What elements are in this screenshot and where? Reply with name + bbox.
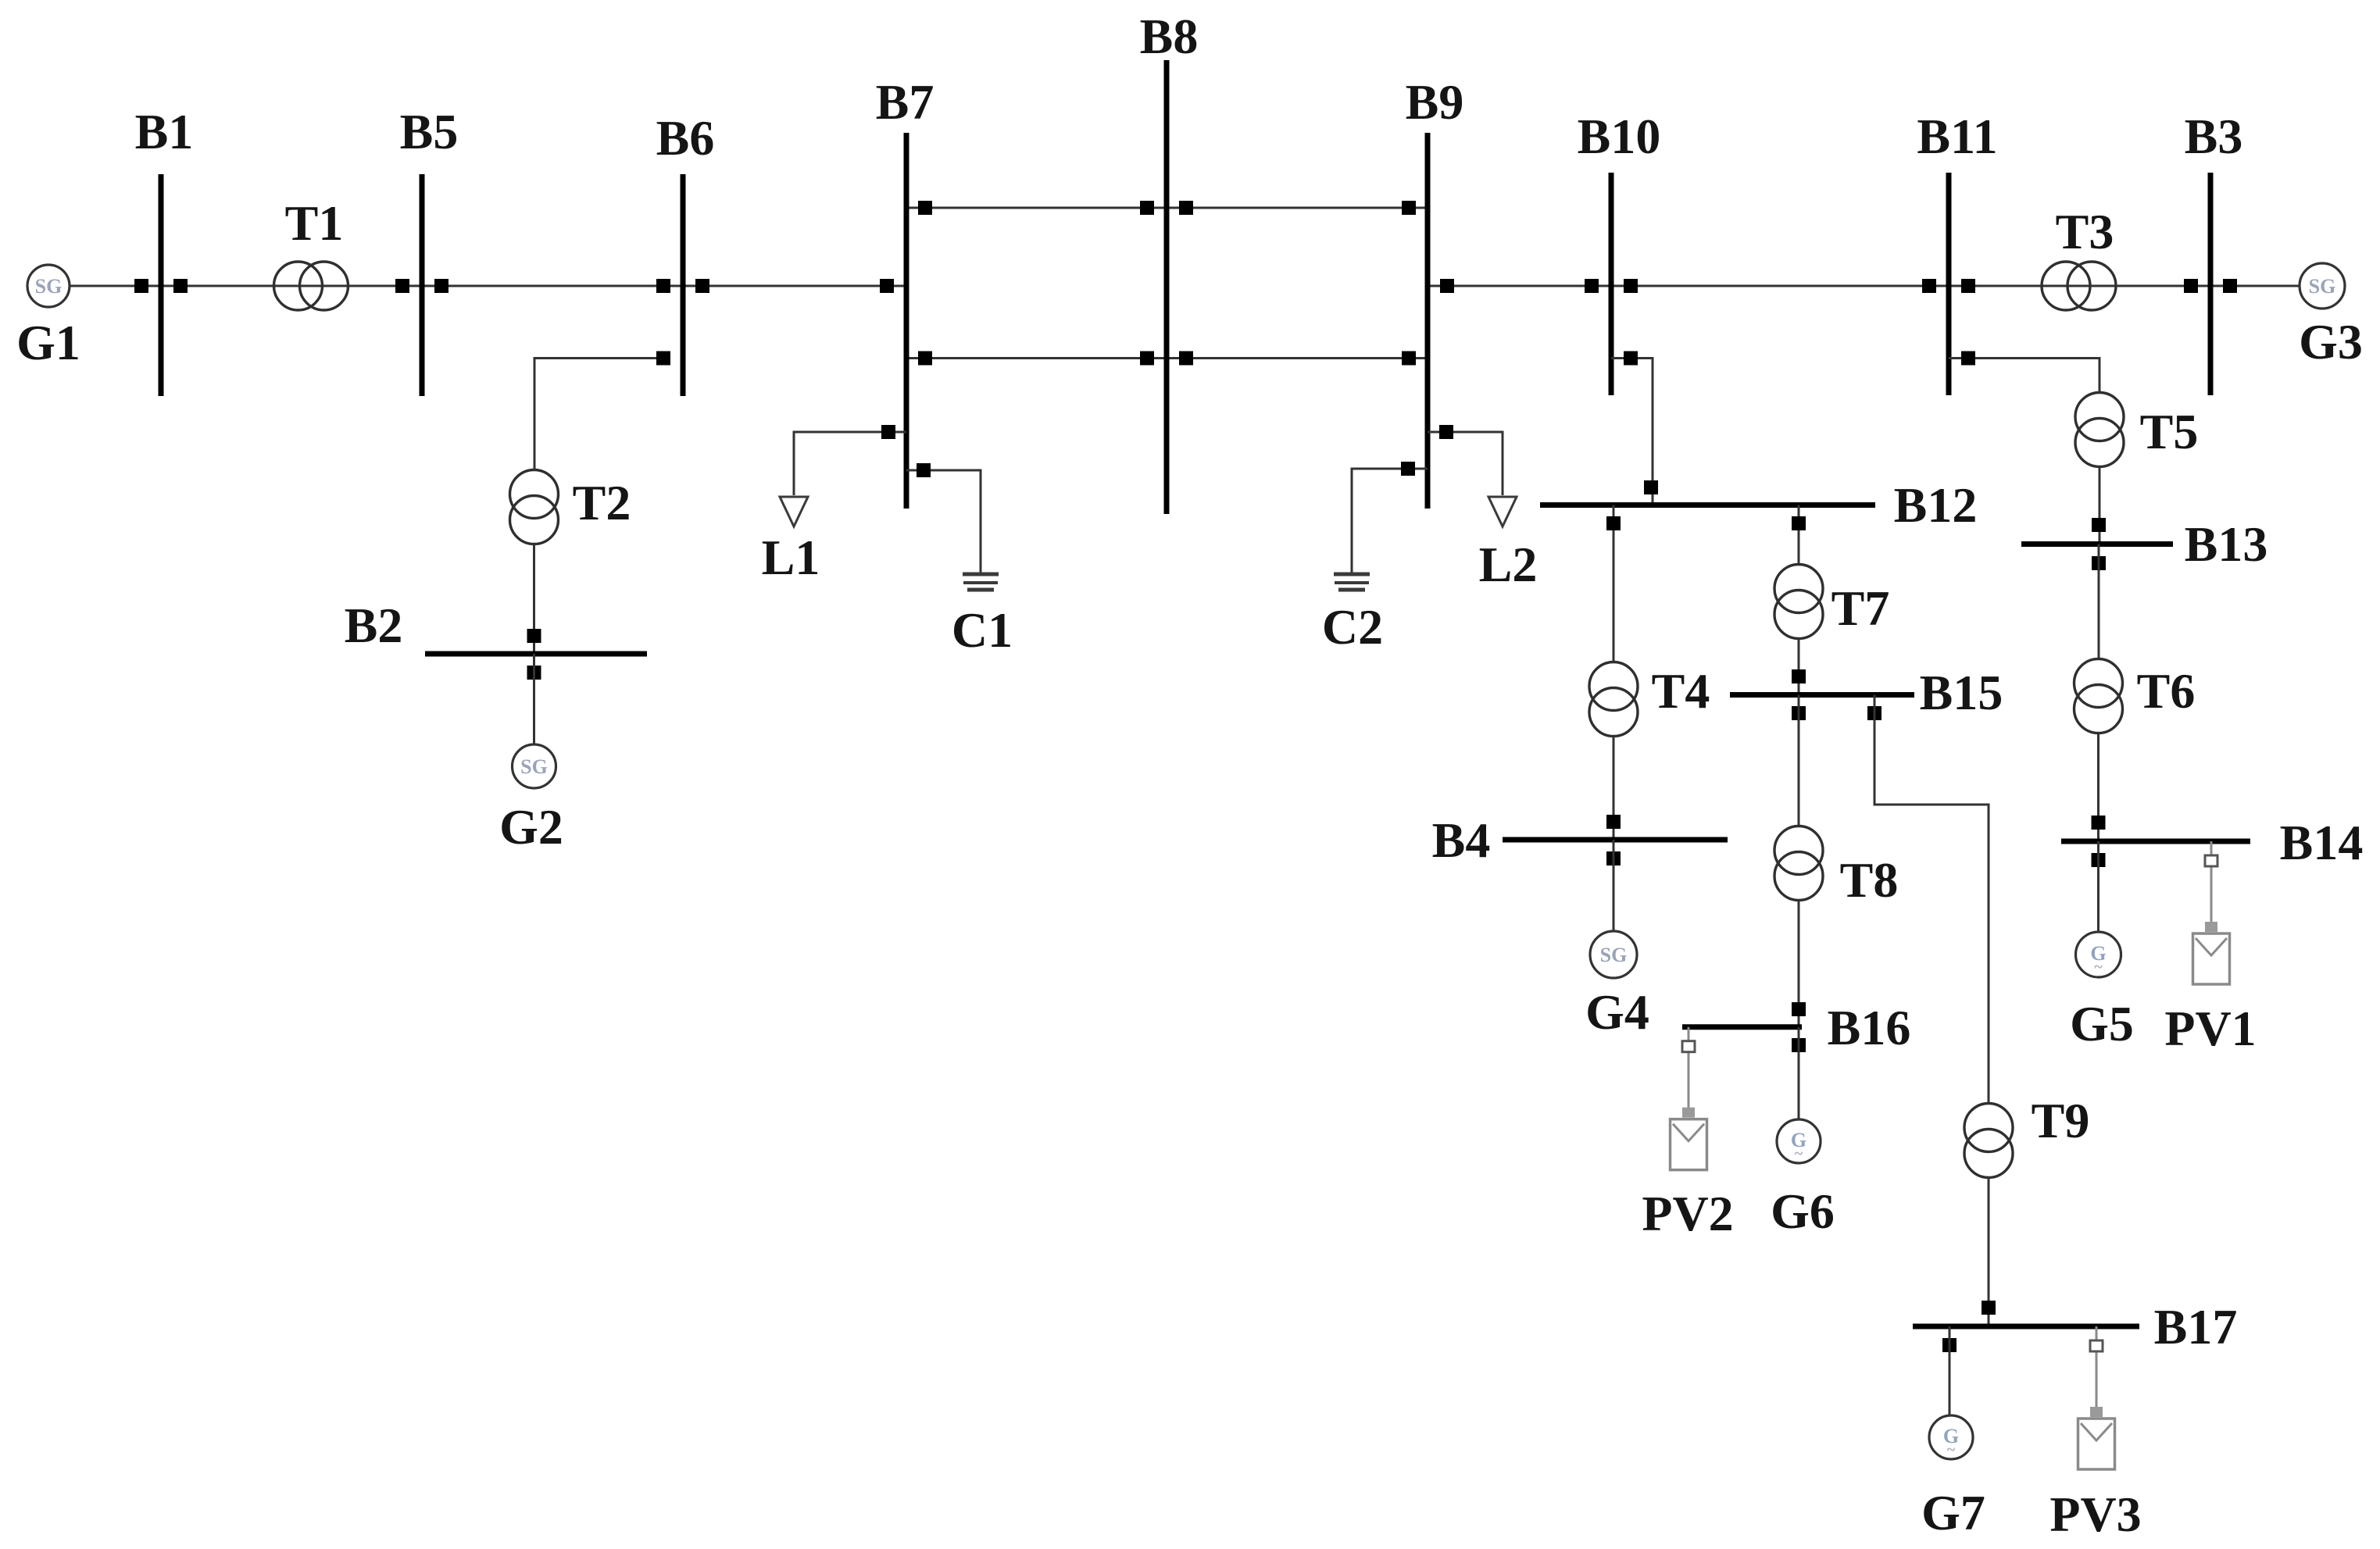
label B1: [135, 104, 194, 159]
svg-text:C1: C1: [952, 602, 1013, 658]
label T8: [1840, 852, 1899, 908]
bus B12: [1540, 502, 1875, 508]
svg-text:B5: B5: [400, 104, 459, 159]
label B9: [1406, 74, 1464, 130]
svg-text:SG: SG: [1600, 944, 1628, 966]
label B3: [2185, 109, 2243, 164]
bus B10: [1609, 173, 1614, 395]
wire B6 to T2: [534, 359, 663, 470]
junction B7-C1: [917, 463, 931, 477]
svg-text:G2: G2: [499, 799, 563, 855]
junction B10-B12 branch: [1624, 352, 1638, 366]
junction B10 right: [1624, 279, 1638, 293]
wire B17 to G7: [1949, 1326, 1951, 1415]
label B5: [400, 104, 459, 159]
wire B10 to B12: [1611, 359, 1653, 505]
svg-text:B16: B16: [1828, 1000, 1911, 1055]
junction B12 top: [1644, 480, 1658, 494]
junction B8 line2 right: [1179, 352, 1193, 366]
label B11: [1917, 109, 1997, 164]
load L1 arrow: [780, 497, 808, 526]
label T2: [573, 475, 631, 530]
bus B9: [1425, 133, 1431, 509]
svg-text:B17: B17: [2154, 1299, 2238, 1354]
svg-text:T8: T8: [1840, 852, 1899, 908]
label T4: [1652, 663, 1710, 719]
svg-text:B8: B8: [1140, 9, 1199, 64]
wire B13 to T6: [2098, 544, 2100, 659]
svg-text:PV1: PV1: [2164, 1001, 2256, 1056]
junction B7-L1: [881, 425, 895, 439]
wire B12 to T4: [1613, 505, 1615, 662]
svg-text:SG: SG: [2309, 275, 2336, 298]
bus B14: [2061, 839, 2250, 844]
bus B8: [1164, 60, 1170, 514]
label T9: [2032, 1093, 2090, 1148]
bus B7: [904, 133, 909, 509]
svg-text:SG: SG: [520, 755, 548, 778]
svg-text:B4: B4: [1432, 812, 1491, 868]
junction B6 left: [656, 279, 670, 293]
junction B10 left: [1585, 279, 1599, 293]
svg-text:T4: T4: [1652, 663, 1710, 719]
bus B13: [2021, 541, 2173, 547]
bus B16: [1682, 1024, 1802, 1030]
capacitor C1: [963, 574, 999, 590]
junction B13 top: [2092, 518, 2106, 532]
photovoltaic PV2: [1671, 1027, 1707, 1170]
svg-text:G6: G6: [1771, 1183, 1835, 1239]
svg-text:G4: G4: [1585, 984, 1649, 1040]
junction B9-C2: [1401, 462, 1415, 476]
wire T5 to B13: [2099, 467, 2101, 544]
label B16: [1828, 1000, 1911, 1055]
svg-text:PV2: PV2: [1642, 1186, 1733, 1241]
svg-text:T7: T7: [1831, 580, 1890, 636]
transformer T5: [2075, 393, 2124, 467]
bus B15: [1730, 692, 1914, 698]
junction B3 right: [2223, 279, 2237, 293]
label C2: [1322, 599, 1383, 655]
junction B7 line1: [918, 201, 932, 215]
label B17: [2154, 1299, 2238, 1354]
wire tie line 2 B7-B8-B9 (bottom): [906, 357, 1428, 359]
transformer T7: [1774, 565, 1823, 639]
label G6: [1771, 1183, 1835, 1239]
label T1: [285, 195, 344, 251]
bus B4: [1503, 837, 1728, 843]
svg-text:T6: T6: [2137, 663, 2196, 719]
svg-text:B7: B7: [876, 74, 934, 130]
junction B9 line2: [1402, 352, 1416, 366]
wire B9 to capacitor C2: [1352, 469, 1428, 573]
label C1: [952, 602, 1013, 658]
junction B3 left: [2184, 279, 2198, 293]
wire T2 to B2: [533, 544, 535, 654]
wire B7 to capacitor C1: [906, 470, 981, 573]
junction B14 bottom: [2092, 853, 2106, 867]
wire B7 to load L1: [794, 432, 906, 495]
bus B6: [681, 174, 686, 396]
svg-text:B12: B12: [1894, 477, 1978, 533]
svg-text:T3: T3: [2056, 204, 2114, 259]
junction B16 top: [1792, 1002, 1806, 1016]
junction B5 right: [434, 279, 448, 293]
svg-text:~: ~: [2094, 958, 2103, 976]
junction B11 left: [1922, 279, 1936, 293]
junction B12 bottom right: [1792, 516, 1806, 530]
wire B9 to load L2: [1428, 432, 1503, 495]
label T5: [2140, 404, 2199, 459]
junction B4 bottom: [1606, 851, 1621, 866]
junction B4 top: [1606, 815, 1621, 829]
transformer T4: [1589, 662, 1638, 737]
svg-text:B3: B3: [2185, 109, 2243, 164]
svg-text:G5: G5: [2070, 996, 2134, 1051]
bus B5: [420, 174, 425, 396]
junction B8 line1 right: [1179, 201, 1193, 215]
bus B17: [1913, 1324, 2139, 1329]
transformer T8: [1774, 826, 1823, 901]
bus B2: [425, 651, 647, 657]
junction B15 top: [1792, 669, 1806, 683]
label T7: [1831, 580, 1890, 636]
junction B2 top: [527, 629, 541, 643]
svg-text:T1: T1: [285, 195, 344, 251]
junction B15 bottom left: [1792, 706, 1806, 720]
svg-text:SG: SG: [35, 275, 63, 298]
svg-text:B14: B14: [2280, 815, 2364, 870]
label T3: [2056, 204, 2114, 259]
wire T6 to B14: [2097, 733, 2099, 841]
wire B15 to T9: [1874, 695, 1989, 1105]
svg-text:G7: G7: [1921, 1485, 1985, 1540]
junction B16 bottom: [1792, 1038, 1806, 1052]
svg-text:B15: B15: [1920, 665, 2003, 720]
label G4: [1585, 984, 1649, 1040]
svg-text:T2: T2: [573, 475, 631, 530]
generator G6: [1777, 1119, 1821, 1163]
junction B15 bottom right: [1867, 706, 1881, 720]
generator G7: [1929, 1415, 1973, 1459]
label B13: [2185, 516, 2268, 572]
svg-text:B2: B2: [345, 598, 403, 653]
junction B7 main-line: [880, 279, 894, 293]
label B4: [1432, 812, 1491, 868]
svg-text:B11: B11: [1917, 109, 1997, 164]
junction B17 bottom: [1942, 1338, 1957, 1352]
generator G4: [1590, 931, 1637, 978]
wire B4 to G4: [1613, 840, 1615, 931]
junction B13 bottom: [2092, 556, 2106, 570]
svg-text:C2: C2: [1322, 599, 1383, 655]
label PV3: [2049, 1487, 2141, 1542]
label B2: [345, 598, 403, 653]
junction B12 bottom left: [1606, 516, 1621, 530]
junction B8 line1 left: [1140, 201, 1154, 215]
wire T9 to B17: [1988, 1178, 1990, 1326]
junction B6-T2 branch: [656, 352, 670, 366]
label L2: [1479, 537, 1538, 592]
transformer T3: [2042, 262, 2116, 310]
svg-text:G3: G3: [2299, 314, 2363, 369]
junction B11-T5 branch: [1961, 352, 1975, 366]
label B8: [1140, 9, 1199, 64]
junction B11 right: [1961, 279, 1975, 293]
junction B2 bottom: [527, 666, 541, 680]
junction B9-L2: [1439, 425, 1453, 439]
wire tie line 1 B7-B8-B9 (top): [906, 207, 1428, 209]
junction B5 left: [395, 279, 409, 293]
junction B1 right: [173, 279, 188, 293]
wire B2 to G2: [533, 654, 535, 744]
transformer T2: [510, 470, 559, 544]
svg-text:~: ~: [1947, 1441, 1956, 1458]
photovoltaic PV1: [2193, 841, 2230, 984]
junction B14 top: [2092, 816, 2106, 830]
label B10: [1578, 109, 1661, 164]
label G1: [16, 315, 80, 370]
junction B9 main-line: [1440, 279, 1454, 293]
wire B15 to T8: [1798, 695, 1800, 827]
junction B9 line1: [1402, 201, 1416, 215]
transformer T6: [2074, 659, 2123, 733]
generator G2: [513, 744, 556, 788]
junction B7 line2: [918, 352, 932, 366]
bus B3: [2208, 173, 2214, 395]
label G7: [1921, 1485, 1985, 1540]
wire T7 to B15: [1798, 638, 1800, 695]
svg-text:B9: B9: [1406, 74, 1464, 130]
label G5: [2070, 996, 2134, 1051]
label B15: [1920, 665, 2003, 720]
svg-text:B13: B13: [2185, 516, 2268, 572]
svg-text:B6: B6: [656, 110, 715, 166]
wire main bus line right B9-B10-B11-T3-B3-G3: [1428, 285, 2301, 287]
svg-text:B10: B10: [1578, 109, 1661, 164]
svg-text:~: ~: [1795, 1145, 1803, 1162]
wire main bus line left G1-B1-T1-B5-B6-B7: [48, 285, 906, 287]
label T6: [2137, 663, 2196, 719]
generator G5: [2076, 932, 2121, 977]
svg-text:PV3: PV3: [2049, 1487, 2141, 1542]
wire B11 to T5: [1949, 359, 2099, 393]
label L1: [762, 530, 820, 585]
bus B11: [1946, 173, 1952, 395]
load L2 arrow: [1488, 497, 1517, 526]
wire T4 to B4: [1613, 737, 1615, 840]
junction B8 line2 left: [1140, 352, 1154, 366]
label B14: [2280, 815, 2364, 870]
svg-text:B1: B1: [135, 104, 194, 159]
junction B17 top: [1982, 1301, 1996, 1315]
wire B16 to G6: [1798, 1027, 1800, 1119]
svg-text:L2: L2: [1479, 537, 1538, 592]
svg-text:L1: L1: [762, 530, 820, 585]
svg-text:T5: T5: [2140, 404, 2199, 459]
bus B1: [159, 174, 164, 396]
label G2: [499, 799, 563, 855]
wire B12 to T7: [1798, 505, 1800, 566]
junction B1 left: [134, 279, 148, 293]
photovoltaic PV3: [2078, 1326, 2115, 1469]
wire B14 to G5: [2097, 841, 2099, 932]
label PV2: [1642, 1186, 1733, 1241]
capacitor C2: [1334, 574, 1370, 590]
generator G1: [27, 265, 70, 307]
transformer T1: [274, 262, 348, 310]
svg-text:G1: G1: [16, 315, 80, 370]
generator G3: [2300, 263, 2345, 309]
label PV1: [2164, 1001, 2256, 1056]
transformer T9: [1964, 1104, 2013, 1178]
label B12: [1894, 477, 1978, 533]
svg-text:T9: T9: [2032, 1093, 2090, 1148]
wire T8 to B16: [1798, 901, 1800, 1027]
label B7: [876, 74, 934, 130]
label G3: [2299, 314, 2363, 369]
label B6: [656, 110, 715, 166]
junction B6 right: [695, 279, 709, 293]
